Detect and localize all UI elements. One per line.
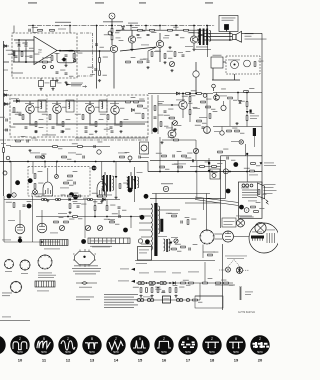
wire R8 to T1 xyxy=(111,40,113,45)
right sect label2 xyxy=(250,115,259,118)
U1 box label xyxy=(11,73,23,74)
ground T8 xyxy=(119,130,122,133)
potentiometer P8 xyxy=(193,148,198,153)
R7 value xyxy=(116,30,121,33)
waveform badge mains xyxy=(239,205,244,210)
resistor R23 xyxy=(120,122,122,127)
video label b xyxy=(193,107,200,110)
ground V6 xyxy=(100,200,103,203)
IF bottom outer line xyxy=(75,137,148,139)
input jack J1 xyxy=(109,13,115,19)
waveform circle 13 xyxy=(82,335,101,354)
svg-text:Z: Z xyxy=(19,337,21,341)
circled ref 1b xyxy=(12,193,16,197)
lower label2 xyxy=(50,232,58,235)
wire IF module bus xyxy=(212,79,240,81)
wire x205 drop chain xyxy=(204,262,206,283)
svg-text:50Hz: 50Hz xyxy=(17,351,23,354)
junction speaker line xyxy=(229,39,231,41)
resistor R12 xyxy=(151,52,153,57)
plug P e xyxy=(176,298,179,301)
capacitor C19 xyxy=(94,145,95,148)
sound sect label2 xyxy=(163,37,169,40)
resistor R67 xyxy=(201,101,206,103)
resistor R114 xyxy=(119,184,121,189)
wire flyback feeds xyxy=(158,209,181,211)
bus junction r x247 xyxy=(246,171,248,173)
node A xyxy=(18,39,20,41)
svg-text:50Hz: 50Hz xyxy=(257,351,263,354)
ground below box2 xyxy=(51,88,54,91)
op-amp U1 triangle xyxy=(34,37,57,65)
waveform badge 17a xyxy=(144,194,149,199)
resistor R40 xyxy=(227,130,232,132)
resistor R13 xyxy=(164,54,166,59)
resistor R17 xyxy=(49,115,51,120)
S5 caption4 xyxy=(75,272,96,275)
C6 value xyxy=(90,73,95,76)
diode row label xyxy=(264,162,274,165)
resistor R113 xyxy=(138,105,143,107)
width label xyxy=(158,235,167,238)
tuner label xyxy=(213,54,222,57)
hv text col 4 xyxy=(264,192,273,195)
waveform badge hv xyxy=(233,162,238,167)
sound rail drop 4 xyxy=(175,26,177,31)
resistor R96 xyxy=(200,166,205,168)
S5 caption2 xyxy=(72,267,101,270)
bus step link xyxy=(147,162,149,172)
mains cable zigzag xyxy=(266,200,269,205)
IF strip divider 3 xyxy=(106,95,108,137)
tube socket S6 xyxy=(200,229,215,244)
bus199 dot2 xyxy=(57,199,59,201)
waveform badge 12b xyxy=(69,192,74,197)
waveform circle 9 (edge clipped) xyxy=(0,335,6,354)
waveform circle 20 xyxy=(250,335,269,354)
potentiometer P11 xyxy=(55,175,59,179)
capacitor C14 xyxy=(19,114,22,115)
wire info box drop xyxy=(229,32,231,41)
capacitor C2 xyxy=(25,45,28,46)
resistor R98 xyxy=(251,163,256,165)
wire x85 drop xyxy=(84,200,86,239)
tube V6 dome xyxy=(97,182,107,198)
wire D12-R73 link xyxy=(246,114,248,116)
wire flyback top xyxy=(155,194,157,204)
svg-text:13: 13 xyxy=(90,358,95,363)
outer dashdot top xyxy=(80,32,93,34)
svg-text:50Hz: 50Hz xyxy=(89,351,95,354)
dashed guide right xyxy=(234,260,240,267)
bus junction r x160 xyxy=(159,171,161,173)
wire x116 drop2 xyxy=(115,179,117,196)
resistor R20 xyxy=(35,122,37,127)
loop transistor blob xyxy=(62,57,67,62)
note dashed row 2 xyxy=(227,257,244,260)
resistor R78 xyxy=(16,140,21,142)
IF transformer F2 can xyxy=(66,100,74,112)
shifter text xyxy=(139,249,149,252)
winding tap 2 xyxy=(242,192,257,194)
diode D5 xyxy=(4,103,7,106)
capacitor C33 xyxy=(154,117,157,118)
resistor R14 xyxy=(174,52,176,57)
resistor R48 xyxy=(64,221,69,223)
capacitor C5 xyxy=(6,119,7,122)
junction video x190 xyxy=(189,93,191,95)
V1 cathode dot xyxy=(234,64,236,66)
note dashed row 1 xyxy=(225,255,247,258)
video node b xyxy=(195,93,197,95)
wire TR2 top xyxy=(104,172,106,175)
svg-text:B: B xyxy=(187,337,189,341)
arrow note 1 xyxy=(71,82,83,85)
resistor R72 xyxy=(246,102,248,107)
chain1 dot b xyxy=(157,282,159,284)
convergence coil A xyxy=(226,267,231,272)
capacitor C50 xyxy=(202,127,205,128)
resistor R41 xyxy=(235,130,240,132)
waveform badge cage xyxy=(226,189,231,194)
capacitor C1 xyxy=(18,45,21,46)
notes line 5 xyxy=(104,304,138,305)
sound rail node 4 xyxy=(175,25,177,27)
small ring left xyxy=(3,171,7,175)
rail junction x70 xyxy=(69,25,71,27)
resistor R38 xyxy=(244,91,249,93)
left small ring xyxy=(6,156,10,160)
socket S5 (enlarged view) xyxy=(73,249,96,267)
LS1 label 3 xyxy=(245,38,267,41)
main bus y171 right xyxy=(148,171,262,173)
ground V12 xyxy=(18,236,21,239)
circled ref bus xyxy=(128,156,132,160)
ground llm xyxy=(68,211,71,214)
IF coil L2 xyxy=(69,102,70,109)
junction y216 x131 xyxy=(130,216,132,218)
wire x178 drop2 xyxy=(177,160,179,172)
socket tick row xyxy=(267,233,275,243)
wire IF module drop xyxy=(234,74,236,80)
node C1 top xyxy=(18,44,20,46)
waveform badge extra xyxy=(27,204,32,209)
notes aside 1 xyxy=(76,296,94,299)
flyback tap 1 xyxy=(139,208,151,210)
IF module label xyxy=(228,59,240,62)
shifter text2 xyxy=(139,252,147,255)
resistor R103 xyxy=(184,29,189,31)
flyback type label xyxy=(161,183,173,184)
feed arrow x134 xyxy=(133,179,135,182)
resistor R84 xyxy=(216,282,221,284)
footer tiny xyxy=(2,316,11,319)
capacitor C9 xyxy=(182,55,185,56)
chain1 toplabel b xyxy=(154,271,166,274)
ground video2 xyxy=(160,141,163,144)
wire y252 link xyxy=(203,251,215,253)
TR1 secondary winding xyxy=(209,31,210,42)
capacitor C29 xyxy=(189,248,190,251)
mains horn xyxy=(258,183,265,199)
bus label2 xyxy=(68,152,76,155)
fuse bead a xyxy=(242,184,245,187)
wire T8 emitter xyxy=(114,114,116,124)
bus label4 xyxy=(174,163,186,166)
dashed guide h1 xyxy=(219,269,225,271)
resistor R105 xyxy=(209,114,211,119)
wire U1 output xyxy=(57,50,80,52)
S3 caption3 xyxy=(38,276,54,279)
meter M1 dial xyxy=(141,145,147,151)
capacitor C43 xyxy=(79,195,80,198)
hv vertical bus xyxy=(220,156,222,228)
wire video cross xyxy=(158,104,172,106)
capacitor C7 xyxy=(137,34,140,35)
wire pilot down xyxy=(245,144,247,156)
waveform gallery row xyxy=(0,335,270,362)
tuner circle V1 xyxy=(231,61,239,69)
ground T7 xyxy=(94,130,97,133)
bus rail y92 right xyxy=(213,92,262,94)
bus y260 label xyxy=(136,262,147,265)
wire R65 links xyxy=(189,94,191,97)
resistor R9 xyxy=(99,58,101,63)
wire cage y203 xyxy=(185,202,220,204)
black diode D9 xyxy=(173,281,176,284)
IF transformer F1 can xyxy=(38,100,46,112)
wire x247 drop2 xyxy=(246,154,248,182)
wire U1 bottom bus xyxy=(13,61,52,63)
wire T4 base feed xyxy=(120,47,156,51)
black diode D14 xyxy=(169,242,172,245)
svg-text:Z: Z xyxy=(259,337,261,341)
TR3 winding left xyxy=(127,177,128,188)
capacitor C13 xyxy=(110,127,113,128)
ground right mid xyxy=(235,122,238,125)
wire T3 collector xyxy=(193,30,195,36)
wire U1 gnd drop 1 xyxy=(40,78,42,81)
svg-text:50Hz: 50Hz xyxy=(209,351,215,354)
X3 label xyxy=(37,290,49,293)
capacitor C26 xyxy=(23,205,26,206)
wire V6 top xyxy=(101,162,103,181)
boost text2 xyxy=(224,223,233,226)
resistor R64 xyxy=(154,106,156,111)
yoke coil cross A xyxy=(238,220,244,226)
notes fragment box xyxy=(195,296,223,308)
wire x95 drop xyxy=(96,30,98,89)
resistor R88 xyxy=(151,288,153,293)
chain1 drop x200 xyxy=(199,283,201,300)
transistor T13 xyxy=(168,130,176,138)
switch label xyxy=(164,298,170,301)
junction video x183 xyxy=(182,93,184,95)
resistor R34 xyxy=(34,174,36,179)
waveform circle 14 xyxy=(106,335,125,354)
width coil ring xyxy=(138,239,142,243)
resistor R1 xyxy=(13,51,15,56)
resistor R97 xyxy=(212,166,217,168)
X2 note row1 xyxy=(90,240,116,243)
IF transistor T7 xyxy=(86,105,95,114)
top chassis rail xyxy=(28,25,215,27)
bus junction x10 xyxy=(9,161,11,163)
link symbol xyxy=(76,281,97,284)
ground h2 xyxy=(150,295,153,298)
svg-text:50Hz: 50Hz xyxy=(161,351,167,354)
capacitor C48 xyxy=(176,34,179,35)
ground C40 xyxy=(64,64,67,67)
wire x230 drop xyxy=(229,100,231,126)
junction video rail xyxy=(182,93,184,95)
svg-text:12: 12 xyxy=(66,358,71,363)
wire left bus to IF xyxy=(4,103,11,105)
wire right bus top link xyxy=(242,32,263,34)
resistor R93 xyxy=(38,29,43,31)
potentiometer P9 xyxy=(174,239,178,243)
notes line 3 xyxy=(104,299,138,300)
sound rail drop 2 xyxy=(145,26,147,31)
transistor T3 xyxy=(190,36,197,43)
resistor R10 xyxy=(138,29,143,31)
ground video xyxy=(173,128,176,131)
wire x255 drop xyxy=(253,136,255,147)
bus junction x130 xyxy=(129,161,131,163)
wire C1 bot xyxy=(18,47,20,62)
magnet B cross xyxy=(237,267,241,273)
wire V12 up xyxy=(19,210,21,224)
node C2 bot xyxy=(25,61,27,63)
S5 caption3 xyxy=(73,270,100,273)
socket link y236 xyxy=(234,236,249,238)
capacitor C15 xyxy=(35,131,38,132)
capacitor C38 xyxy=(118,207,121,208)
wire x148 stub xyxy=(147,51,149,60)
wire x204 drop xyxy=(203,198,205,210)
ground T3 xyxy=(192,48,195,51)
IF transformer F3 can xyxy=(99,100,107,112)
socket S2 xyxy=(19,259,30,270)
wire x209 link xyxy=(208,158,210,170)
sound rail node 5 xyxy=(193,25,195,27)
junction y216 x95 xyxy=(94,216,96,218)
S5 caption1 xyxy=(74,264,98,267)
waveform circle 10 xyxy=(10,335,29,354)
notes fragment wire xyxy=(195,295,222,297)
transistor T12 (video) xyxy=(179,101,187,109)
connector strip X3 xyxy=(35,281,55,287)
bus199 dot5 xyxy=(103,199,105,201)
TR2 label xyxy=(99,194,112,197)
connector label xyxy=(92,246,110,249)
notes line 6 xyxy=(104,307,134,308)
isolator box 1 xyxy=(39,81,44,87)
wire V15 up xyxy=(221,127,223,131)
TR4 winding right xyxy=(158,206,159,234)
top margin label 1 xyxy=(28,2,37,3)
wire x95 link2 xyxy=(94,210,96,216)
capacitor C57 xyxy=(147,61,150,62)
sound rail y30 xyxy=(116,29,207,31)
resistor R55 xyxy=(189,282,194,284)
capacitor C49 xyxy=(95,44,98,45)
capacitor C17 xyxy=(85,131,88,132)
EL box xyxy=(210,169,220,179)
resistor R101 xyxy=(254,211,259,213)
winding tap 3 xyxy=(242,194,257,196)
capacitor C55 xyxy=(56,72,59,73)
waveform circle 12 xyxy=(58,335,77,354)
capacitor C25 xyxy=(69,198,70,201)
black bar choke L4 xyxy=(253,128,256,136)
bus junction r x196 xyxy=(195,171,197,173)
wire x56 drop xyxy=(56,162,58,175)
transformer label xyxy=(240,216,254,219)
wire V9 link xyxy=(223,101,225,105)
potentiometer P3 xyxy=(59,225,64,230)
resistor R63 xyxy=(197,93,202,95)
resistor R76 xyxy=(21,52,23,57)
resistor R35 xyxy=(34,184,36,189)
ground h3 xyxy=(174,295,177,298)
power transformer box xyxy=(238,182,262,218)
wire C1 top xyxy=(18,40,20,45)
capacitor C56 xyxy=(65,73,68,74)
TR2 winding right xyxy=(112,176,113,190)
main bus y161 left xyxy=(0,161,148,163)
sound rail node 6 xyxy=(206,25,208,27)
wire left bus to box A xyxy=(4,61,10,63)
ground below R9 xyxy=(98,79,101,82)
feed label x134 xyxy=(137,171,143,174)
sound rail node 2 xyxy=(145,25,147,27)
svg-text:50Hz: 50Hz xyxy=(185,351,191,354)
wire TR1 to speaker hot xyxy=(204,32,232,34)
resistor R29 xyxy=(36,156,41,158)
info box text line1 xyxy=(222,17,236,20)
black capacitor C46 xyxy=(208,162,210,165)
sound rail drop 3 xyxy=(159,26,161,31)
svg-text:18: 18 xyxy=(210,358,215,363)
node pilot xyxy=(246,153,248,155)
resistor R82 xyxy=(208,254,213,256)
tuner unit box xyxy=(211,57,223,68)
wire T12 emitter down xyxy=(182,109,184,118)
wire U1 input xyxy=(12,50,34,52)
wire T1 emitter down xyxy=(113,53,115,89)
node U1 out xyxy=(59,50,61,52)
transformer TR1 core bar 3 xyxy=(206,29,208,46)
socket S3 (large) xyxy=(38,254,53,269)
top margin label 4 xyxy=(205,2,213,3)
wire R65-R66 link xyxy=(189,101,191,109)
sv note2 xyxy=(2,294,10,297)
shifter box xyxy=(138,247,152,261)
transformer TR2 core bar 1 xyxy=(103,175,105,192)
above box label xyxy=(58,28,66,31)
resistor R91 xyxy=(175,288,177,293)
linearity core xyxy=(166,239,168,252)
meter label xyxy=(140,156,149,159)
info box text line2 xyxy=(222,19,234,22)
waveform badge left xyxy=(7,194,12,199)
wire T5 emitter xyxy=(29,113,31,124)
trimmer C34 xyxy=(203,94,207,98)
tube V15 xyxy=(220,131,224,135)
rail label left xyxy=(55,22,71,23)
ground x148 xyxy=(146,66,149,69)
